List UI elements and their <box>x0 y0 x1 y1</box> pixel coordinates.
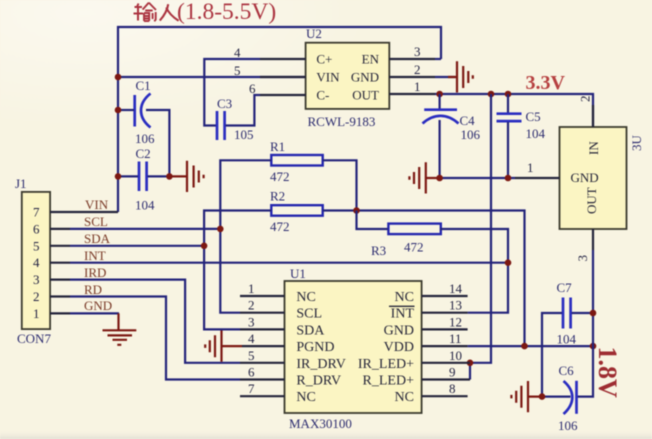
wire C6 left <box>542 396 571 398</box>
label GND <box>84 298 112 313</box>
U1 pin 5 <box>240 348 285 363</box>
svg-text:1.8V: 1.8V <box>593 347 622 399</box>
label RD <box>84 282 102 297</box>
svg-text:1: 1 <box>248 281 255 296</box>
U3 pin 1 <box>515 160 560 178</box>
J1 pin 3 <box>33 272 70 287</box>
IC U3 regulator <box>560 127 645 229</box>
svg-text:GND: GND <box>84 298 112 313</box>
svg-text:104: 104 <box>557 332 577 347</box>
svg-text:1: 1 <box>527 160 534 175</box>
node LED junction pin10 <box>467 360 474 367</box>
capacitor C1 <box>135 78 155 146</box>
svg-text:7: 7 <box>33 205 40 220</box>
U3 pin 3 <box>575 229 593 262</box>
svg-text:NC: NC <box>296 390 315 405</box>
svg-text:NC: NC <box>395 390 414 405</box>
svg-text:8: 8 <box>449 381 456 396</box>
svg-text:1: 1 <box>33 306 40 321</box>
svg-text:C5: C5 <box>526 109 541 124</box>
svg-text:1: 1 <box>414 79 421 94</box>
node C2 right junction <box>166 173 173 180</box>
svg-text:6: 6 <box>248 365 255 380</box>
wire 1.8V vertical <box>578 250 594 397</box>
U1 pin 3 <box>240 314 285 329</box>
U2 pin 3 <box>389 44 435 59</box>
capacitor C7 <box>557 280 577 347</box>
node C5 gnd junction <box>505 175 512 182</box>
svg-text:EN: EN <box>362 52 380 67</box>
svg-text:3U: 3U <box>629 135 644 152</box>
svg-text:CON7: CON7 <box>17 331 51 346</box>
svg-text:C3: C3 <box>217 96 232 111</box>
svg-text:3: 3 <box>414 44 421 59</box>
U2 pin 1 <box>389 79 435 94</box>
svg-text:6: 6 <box>249 81 256 96</box>
svg-text:R_LED+: R_LED+ <box>363 374 415 389</box>
wire INT <box>70 262 508 264</box>
capacitor C3 <box>217 96 254 142</box>
wire R3 right <box>440 229 508 313</box>
wire C2 right <box>148 175 170 177</box>
svg-text:11: 11 <box>449 331 462 346</box>
wire VDD rail <box>468 345 593 347</box>
svg-text:4: 4 <box>248 331 255 346</box>
capacitor C4 <box>423 94 481 178</box>
svg-text:VIN: VIN <box>85 197 109 212</box>
wire J1 GND <box>70 312 119 314</box>
node 3.3V-LED junction <box>488 91 495 98</box>
svg-text:2: 2 <box>33 289 40 304</box>
svg-text:3: 3 <box>33 272 40 287</box>
resistor R2 <box>270 189 323 235</box>
ground right of C2 <box>169 161 203 192</box>
svg-text:GND: GND <box>571 170 599 185</box>
wire C2 left <box>118 175 138 177</box>
svg-text:J1: J1 <box>15 176 27 191</box>
U1 pin 7 <box>240 381 285 396</box>
label 3.3V <box>526 72 566 94</box>
U2 pin 4 <box>234 45 306 60</box>
U3 pin 2 <box>578 96 594 128</box>
node C4 gnd junction <box>436 175 443 182</box>
node C2 left junction <box>115 173 122 180</box>
wire gnd rail mid <box>440 177 515 179</box>
ground at U1 pin 4 <box>205 331 242 362</box>
svg-text:C4: C4 <box>460 113 476 128</box>
J1 pin 4 <box>33 255 70 270</box>
U1 pin 8 <box>422 381 468 396</box>
svg-text:IR_LED+: IR_LED+ <box>358 357 414 372</box>
wire SDA <box>70 245 204 247</box>
svg-text:MAX30100: MAX30100 <box>289 416 352 431</box>
svg-text:10: 10 <box>449 348 462 363</box>
node INT junction <box>505 259 512 266</box>
J1 pin 1 <box>33 306 70 321</box>
svg-text:6: 6 <box>33 221 40 236</box>
label SDA <box>84 231 111 246</box>
wire 3.3V rail <box>435 94 593 127</box>
U1 pin 13 <box>422 298 468 313</box>
svg-text:OUT: OUT <box>352 88 379 103</box>
label input 输入(1.8-5.5V) <box>134 0 277 25</box>
svg-text:12: 12 <box>449 314 462 329</box>
U1 pin 10 <box>422 348 470 363</box>
svg-text:R3: R3 <box>371 243 386 258</box>
label INT <box>84 248 106 263</box>
J1 pin 7 <box>33 205 118 220</box>
node C6 gnd junction <box>539 393 546 400</box>
node SCL junction <box>217 226 224 233</box>
svg-text:2: 2 <box>578 96 593 103</box>
svg-text:C7: C7 <box>557 280 573 295</box>
svg-text:472: 472 <box>404 240 424 255</box>
svg-text:RCWL-9183: RCWL-9183 <box>308 114 376 129</box>
svg-text:3: 3 <box>575 255 590 262</box>
svg-text:104: 104 <box>135 198 155 213</box>
svg-text:INT: INT <box>391 307 415 322</box>
capacitor C2 <box>135 146 155 213</box>
wire C- net <box>226 95 260 126</box>
wire R2 left <box>204 211 271 330</box>
label 1.8V <box>593 347 622 399</box>
J1 pin 6 <box>33 221 70 236</box>
svg-text:U2: U2 <box>306 26 322 41</box>
U1 pin 14 <box>422 281 468 296</box>
svg-text:9: 9 <box>449 365 456 380</box>
resistor R3 <box>371 224 441 258</box>
U1 pin 6 <box>240 365 285 380</box>
wire C+ net <box>204 59 260 126</box>
svg-text:C+: C+ <box>316 52 332 67</box>
svg-text:4: 4 <box>234 45 241 60</box>
svg-text:3.3V: 3.3V <box>526 72 566 94</box>
wire R1 left <box>220 160 271 312</box>
svg-text:472: 472 <box>270 219 290 234</box>
node VDD pullup junction <box>521 343 528 350</box>
svg-text:7: 7 <box>248 381 255 396</box>
svg-text:2: 2 <box>248 298 255 313</box>
ground at U2 pin2 <box>448 61 473 92</box>
ground below J1 <box>103 313 137 344</box>
svg-text:3: 3 <box>248 314 255 329</box>
wire R2 right pullup rail <box>323 211 525 347</box>
svg-text:4: 4 <box>33 255 40 270</box>
U2 pin 5 <box>234 63 306 78</box>
wire C7 left <box>542 313 562 397</box>
node C7 1.8V junction <box>590 310 597 317</box>
svg-text:NC: NC <box>395 290 414 305</box>
wire C1 right <box>146 110 169 176</box>
wire LED supply <box>470 94 491 380</box>
wire R3 left <box>357 211 388 230</box>
svg-text:R_DRV: R_DRV <box>296 374 341 389</box>
U1 pin 11 <box>422 331 468 346</box>
J1 pin 5 <box>33 238 70 253</box>
svg-text:IN: IN <box>586 141 601 155</box>
node OUT-C4 junction <box>436 91 443 98</box>
wire IRD <box>70 280 240 363</box>
svg-text:C2: C2 <box>136 146 151 161</box>
svg-text:SCL: SCL <box>296 307 322 322</box>
U1 pin 12 <box>422 314 468 329</box>
svg-text:R1: R1 <box>270 139 285 154</box>
U2 pin 2 <box>389 62 435 77</box>
svg-text:2: 2 <box>414 62 421 77</box>
svg-text:106: 106 <box>558 418 578 433</box>
svg-text:IR_DRV: IR_DRV <box>296 357 345 372</box>
wire RD <box>70 297 240 380</box>
node SDA junction <box>201 243 208 250</box>
label VIN <box>85 197 109 212</box>
svg-text:14: 14 <box>449 281 463 296</box>
svg-text:IRD: IRD <box>84 265 106 280</box>
wire C7 right <box>572 312 593 314</box>
node VDD 1.8V junction <box>590 343 597 350</box>
resistor R1 <box>270 139 323 184</box>
wire VIN to U2 <box>118 76 306 78</box>
svg-text:5: 5 <box>234 63 241 78</box>
svg-text:C-: C- <box>316 88 329 103</box>
svg-text:SDA: SDA <box>84 231 111 246</box>
svg-text:R2: R2 <box>270 189 285 204</box>
svg-text:106: 106 <box>135 131 155 146</box>
svg-text:RD: RD <box>84 282 102 297</box>
connector J1 <box>15 176 51 346</box>
U2 pin 6 <box>249 81 306 96</box>
node VIN-wire junction <box>115 74 122 81</box>
svg-text:5: 5 <box>248 348 255 363</box>
svg-text:GND: GND <box>384 323 414 338</box>
svg-text:INT: INT <box>84 248 106 263</box>
IC U1 MAX30100 <box>285 266 422 431</box>
capacitor C5 <box>497 94 546 178</box>
IC U2 RCWL-9183 <box>306 26 390 129</box>
label SCL <box>84 214 108 229</box>
node C1 junction <box>115 107 122 114</box>
U1 pin 2 <box>240 298 285 313</box>
node 3.3V-C5 junction <box>505 91 512 98</box>
wire SCL <box>70 228 220 230</box>
wire U2 gnd <box>435 76 456 78</box>
svg-text:VIN: VIN <box>316 70 340 85</box>
svg-text:104: 104 <box>526 126 546 141</box>
label IRD <box>84 265 106 280</box>
U1 pin 1 <box>240 281 285 296</box>
svg-text:C1: C1 <box>136 78 151 93</box>
ground left of C6 <box>511 381 542 412</box>
svg-text:472: 472 <box>270 169 290 184</box>
ground left of C4 <box>409 162 439 193</box>
J1 pin 2 <box>33 289 70 304</box>
wire input top <box>118 27 441 212</box>
svg-text:C6: C6 <box>559 363 575 378</box>
svg-text:105: 105 <box>234 127 254 142</box>
svg-text:GND: GND <box>351 70 379 85</box>
svg-text:(1.8-5.5V): (1.8-5.5V) <box>177 0 276 25</box>
svg-text:VDD: VDD <box>384 340 414 355</box>
svg-text:SDA: SDA <box>296 323 325 338</box>
capacitor C6 <box>558 363 578 433</box>
node pullup junction <box>353 207 360 214</box>
svg-text:5: 5 <box>33 238 40 253</box>
U1 pin 9 <box>422 365 470 380</box>
svg-text:NC: NC <box>296 290 315 305</box>
svg-text:SCL: SCL <box>84 214 108 229</box>
wire C1 left <box>118 109 134 111</box>
svg-text:13: 13 <box>449 298 462 313</box>
svg-text:OUT: OUT <box>584 187 599 214</box>
wire R1 right <box>323 160 357 210</box>
svg-text:PGND: PGND <box>296 340 334 355</box>
U1 pin 4 <box>242 331 285 346</box>
wire EN to top <box>435 58 441 60</box>
svg-text:U1: U1 <box>290 266 306 281</box>
svg-text:106: 106 <box>461 127 481 142</box>
